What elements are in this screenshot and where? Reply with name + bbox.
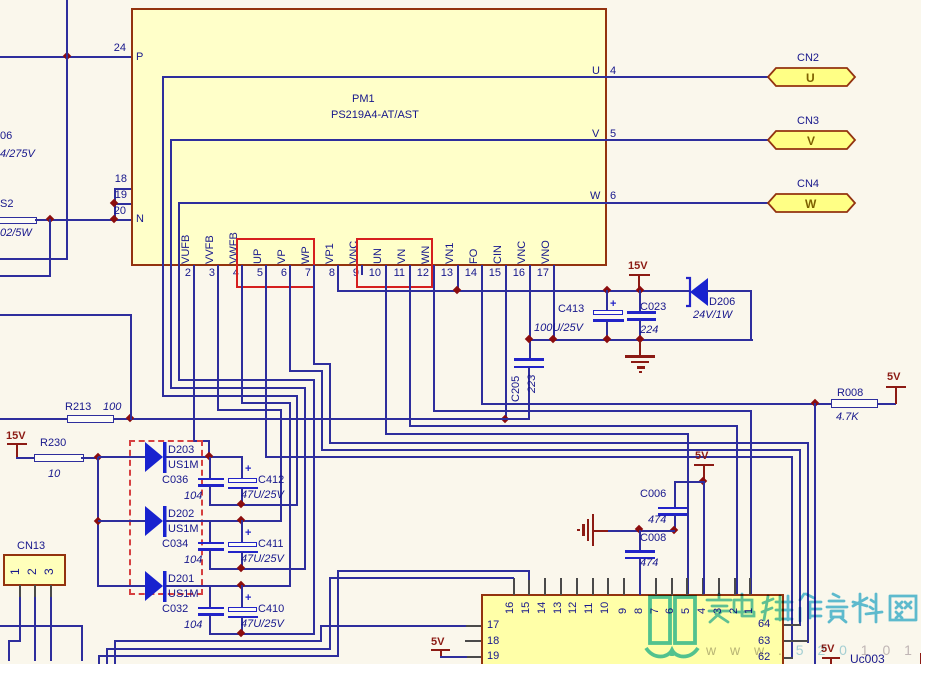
junction anode bus D202: [0, 0, 1, 1]
wire D202 anode: [0, 0, 1, 1]
ground symbol left facing: [0, 0, 1, 1]
pin 14 FO name and number: [0, 0, 1, 1]
capacitor C032 104: [0, 0, 1, 1]
wire ground to C008 C006: [0, 0, 1, 1]
wire FO branch down right side: [0, 0, 1, 1]
wire U bootstrap return row: [0, 0, 1, 1]
wire pin6 VP to UC003 pin 64: [0, 0, 1, 1]
capacitor C034 104: [0, 0, 1, 1]
pin 7 WP name and number: [0, 0, 1, 1]
pin 3 VVFB name and number: [0, 0, 1, 1]
pin 9 VNC name and number: [0, 0, 1, 1]
pin 13 VN1 name and number: [0, 0, 1, 1]
pin 17 VNO name and number: [0, 0, 1, 1]
svg-text:V: V: [807, 134, 815, 148]
resistor R213 100: [0, 0, 1, 1]
capacitor C023 224: [0, 0, 1, 1]
wire D201 cathode row: [0, 0, 1, 1]
capacitor C206 labels (cut off at left edge): [0, 0, 1, 1]
resistor RS2 (cut off): [0, 0, 1, 1]
wire 5V to C006: [0, 0, 1, 1]
pin 6 W output label: [0, 0, 1, 1]
diode D202 US1M: [0, 0, 1, 1]
connector CN3 port V: [0, 0, 1, 1]
capacitor C036 104: [0, 0, 1, 1]
wire pin3 VVFB to D202 cathode: [0, 0, 1, 1]
junction D203 cathode pin2: [0, 0, 1, 1]
wire pin11 VN to UC003 pin 2: [0, 0, 1, 1]
junction C006 bottom: [0, 0, 1, 1]
resistor R008 4.7K: [0, 0, 1, 1]
red dashed box around bootstrap diodes: [0, 0, 1, 1]
junction ground rail C413: [0, 0, 1, 1]
canvas bottom white band: [0, 0, 1, 1]
pin 4 U output label: [0, 0, 1, 1]
ground symbol under C023: [0, 0, 1, 1]
pins 18 19 20 bracket: [0, 0, 1, 1]
wire pin5 UP to UC003 pin 62: [0, 0, 1, 1]
pin 10 UN name and number: [0, 0, 1, 1]
pin 9 stub: [0, 0, 1, 1]
wire pin4 VWFB to D201 cathode: [0, 0, 1, 1]
pin 11 VN name and number: [0, 0, 1, 1]
wire pin15 CIN down to sense line: [0, 0, 1, 1]
capacitor C411 47U/25V electrolytic: [0, 0, 1, 1]
svg-text:W: W: [805, 197, 817, 211]
junction on P wire: [0, 0, 1, 1]
ground rail wire: [0, 0, 1, 1]
wire pin12 WN to UC003 pin 1: [0, 0, 1, 1]
wire pin2 VUFB to D203 cathode: [0, 0, 1, 1]
junction N wire at RS2: [0, 0, 1, 1]
wire W phase to CN4: [0, 0, 1, 1]
microcontroller UC003 body: [0, 0, 1, 1]
wire pin16 VNC down to C205: [0, 0, 1, 1]
maroon mark right edge: [0, 0, 1, 1]
pin 5 V output label: [0, 0, 1, 1]
wire pin10 UN to UC003 pin 5: [0, 0, 1, 1]
junction C412 bottom: [0, 0, 1, 1]
wire riser to UC003 pin17: [0, 0, 1, 1]
junction C008 top: [0, 0, 1, 1]
connector CN4 port W: [0, 0, 1, 1]
pin 5 UP name and number: [0, 0, 1, 1]
svg-text:U: U: [806, 71, 815, 85]
power 5V symbol at UC003 pin19: [0, 0, 1, 1]
IPM module PM1 PS219A4-AT/AST body: [0, 0, 1, 1]
CN13 pin 2 lead: [0, 0, 1, 1]
junction C413 top: [0, 0, 1, 1]
junction R213 right: [0, 0, 1, 1]
pin 24 P label: [0, 0, 1, 1]
watermark www.520101.com: [0, 0, 1, 1]
capacitor C412 47U/25V electrolytic: [0, 0, 1, 1]
junction pin15 CIN: [0, 0, 1, 1]
wire from left edge down to R213 junction: [0, 0, 1, 1]
wire V phase to CN3: [0, 0, 1, 1]
wire pin13 VN1 down to 15V rail: [0, 0, 1, 1]
pin 15 CIN name and number: [0, 0, 1, 1]
wire W bootstrap return row: [0, 0, 1, 1]
pin 16 VNC name and number: [0, 0, 1, 1]
wire V bootstrap return row: [0, 0, 1, 1]
red highlight box around pins 9-12: [0, 0, 1, 1]
wire riser to UC003 pin15: [0, 0, 1, 1]
watermark text 家电维修资料网: [0, 0, 1, 1]
red highlight box around pins 5-7: [0, 0, 1, 1]
wire D206 anode to ground rail: [0, 0, 1, 1]
wire U phase to CN2: [0, 0, 1, 1]
UC003 right pin stubs 64 63 62: [0, 0, 1, 1]
wire 5V to pin19: [0, 0, 1, 1]
connector CN13: [0, 0, 1, 1]
wire D203 anode: [0, 0, 1, 1]
capacitor C006 474: [0, 0, 1, 1]
power 5V symbol top right: [0, 0, 1, 1]
wire from left edge bottom: [0, 0, 1, 1]
canvas right white strip: [0, 0, 1, 1]
wire N net RS2 to pin 20: [0, 0, 1, 1]
sense wire R213 to CIN and C205: [0, 0, 1, 1]
pin 4 VWFB name and number: [0, 0, 1, 1]
wire U phase down inside module: [0, 0, 1, 1]
wire pin7 WP to UC003 pin 63: [0, 0, 1, 1]
capacitor C413 100U/25V electrolytic: [0, 0, 1, 1]
junction C410 bottom: [0, 0, 1, 1]
wire D201 anode: [0, 0, 1, 1]
wire pin14 FO to R008: [0, 0, 1, 1]
junction R008 FO: [0, 0, 1, 1]
wire W phase down inside module: [0, 0, 1, 1]
wire pin17 VNO down to ground rail: [0, 0, 1, 1]
wire pin8 VP1 to 15V rail: [0, 0, 1, 1]
capacitor C205 223: [0, 0, 1, 1]
wire P net from left edge to pin 24: [0, 0, 1, 1]
wire N branch down to left edge: [0, 0, 1, 1]
wire 5V down to UC003 pin 4: [0, 0, 1, 1]
junction 5V node: [0, 0, 1, 1]
junction ground rail pin17: [0, 0, 1, 1]
pin 12 WN name and number: [0, 0, 1, 1]
power 5V symbol bottom right: [0, 0, 1, 1]
pin 2 VUFB name and number: [0, 0, 1, 1]
junction R230 diode anode bus: [0, 0, 1, 1]
wire D203 cathode row: [0, 0, 1, 1]
capacitor C410 47U/25V electrolytic: [0, 0, 1, 1]
UC003 left pin stubs 17 18 19: [0, 0, 1, 1]
diode D203 US1M: [0, 0, 1, 1]
UC003 reference label: [0, 0, 1, 1]
wire P branch down left side: [0, 0, 1, 1]
capacitor C008 474: [0, 0, 1, 1]
junction pin19: [0, 0, 1, 1]
power 5V symbol at C006: [0, 0, 1, 1]
junction C411 bottom: [0, 0, 1, 1]
UC003 top pin stubs: [0, 0, 1, 1]
pin 6 VP name and number: [0, 0, 1, 1]
junction D202 cathode C411: [0, 0, 1, 1]
resistor R230 10: [0, 0, 1, 1]
junction 15V stem: [0, 0, 1, 1]
CN13 pin 3 lead: [0, 0, 1, 1]
diode D201 US1M: [0, 0, 1, 1]
wire V phase down inside module: [0, 0, 1, 1]
wire D202 cathode row: [0, 0, 1, 1]
junction pin13 on 15V rail: [0, 0, 1, 1]
junction D201 cathode C410: [0, 0, 1, 1]
junction ground rail pin16: [0, 0, 1, 1]
CN13 pin 1 lead: [0, 0, 1, 1]
watermark book logo: [0, 0, 2, 2]
pin 8 VP1 name and number: [0, 0, 1, 1]
diode anode bus vertical: [0, 0, 1, 1]
zener diode D206 24V/1W: [0, 0, 1, 1]
wire riser to UC003 pin16: [0, 0, 1, 1]
power 15V symbol left: [0, 0, 1, 1]
junction pin20: [0, 0, 1, 1]
junction ground rail C023: [0, 0, 1, 1]
power 15V symbol top: [0, 0, 1, 1]
connector CN2 port U: [0, 0, 1, 1]
